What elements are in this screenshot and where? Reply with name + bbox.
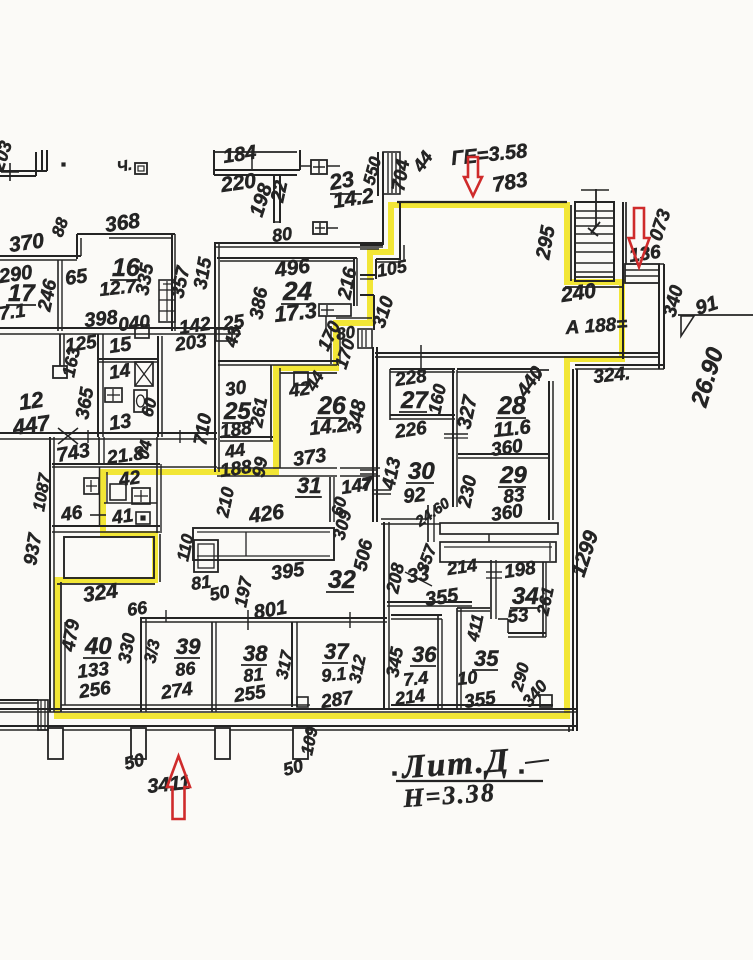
svg-text:65: 65 [64, 265, 90, 290]
svg-text:38: 38 [243, 641, 268, 666]
svg-text:30: 30 [408, 458, 435, 485]
svg-text:50: 50 [208, 581, 232, 605]
svg-text:360: 360 [490, 501, 525, 526]
svg-text:10: 10 [456, 667, 478, 689]
svg-text:17.3: 17.3 [273, 298, 318, 327]
svg-text:86: 86 [174, 658, 197, 680]
svg-text:80: 80 [271, 223, 294, 246]
svg-text:324: 324 [81, 579, 119, 607]
svg-text:92: 92 [402, 484, 426, 508]
svg-text:370: 370 [7, 229, 45, 257]
svg-text:Ч.: Ч. [116, 157, 134, 176]
svg-text:198: 198 [503, 558, 538, 583]
svg-text:99: 99 [248, 455, 271, 478]
svg-text:14: 14 [108, 360, 132, 384]
svg-text:9.1: 9.1 [320, 663, 347, 686]
svg-text:040: 040 [117, 312, 151, 336]
svg-text:28: 28 [497, 392, 526, 420]
svg-text:373: 373 [292, 445, 328, 471]
svg-text:184: 184 [222, 142, 258, 168]
svg-text:80: 80 [335, 322, 357, 344]
svg-text:31: 31 [297, 473, 321, 498]
svg-text:53: 53 [506, 605, 530, 628]
svg-text:324.: 324. [592, 363, 631, 388]
svg-text:40: 40 [84, 633, 112, 660]
svg-text:398: 398 [83, 307, 119, 332]
svg-text:360: 360 [490, 436, 525, 461]
svg-text:13: 13 [108, 410, 133, 435]
svg-text:37: 37 [324, 639, 350, 664]
svg-text:368: 368 [103, 209, 141, 237]
svg-text:214: 214 [445, 555, 479, 579]
svg-text:66: 66 [126, 597, 150, 620]
svg-text:7.1: 7.1 [0, 300, 27, 324]
svg-text:46: 46 [59, 502, 84, 526]
svg-text:214: 214 [393, 685, 427, 709]
svg-text:36: 36 [412, 642, 437, 667]
svg-text:А 188=: А 188= [564, 314, 628, 339]
svg-text:355: 355 [463, 688, 498, 713]
svg-text:35: 35 [474, 646, 499, 671]
svg-text:15: 15 [108, 333, 134, 358]
svg-text:136: 136 [628, 242, 663, 267]
svg-text:39: 39 [176, 634, 201, 659]
svg-text:32: 32 [328, 566, 356, 594]
svg-text:41: 41 [110, 505, 135, 529]
svg-text:42: 42 [117, 467, 142, 491]
